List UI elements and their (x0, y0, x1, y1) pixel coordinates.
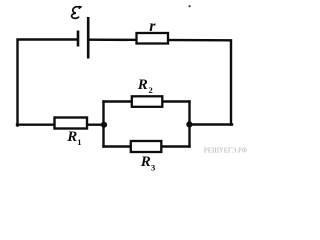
resistor r body (137, 33, 169, 44)
wire battery to resistor r to top-right corner and down (89, 40, 231, 125)
svg-text:3: 3 (151, 162, 155, 172)
resistor R2 body (132, 96, 163, 107)
label EMF script-E (72, 7, 81, 19)
battery E short plate (77, 31, 80, 47)
svg-text:1: 1 (77, 137, 81, 147)
svg-text:R: R (140, 154, 151, 170)
resistor R3 body (131, 141, 162, 152)
wire bottom-left run to left junction (17, 123, 104, 125)
svg-text:2: 2 (149, 85, 153, 95)
wire top-left from corner to battery (18, 40, 78, 126)
speck artifact top right (189, 5, 191, 7)
svg-text:РЕШУЕГЭ.РФ: РЕШУЕГЭ.РФ (204, 147, 248, 155)
junction node right (186, 121, 192, 127)
junction node left (101, 122, 107, 128)
battery E long plate (87, 17, 90, 59)
svg-text:R: R (137, 77, 148, 93)
wire top branch through R2 (104, 100, 190, 102)
wire right junction to right vertical (190, 123, 233, 125)
wire left parallel branch vertical (102, 102, 104, 147)
wire bottom branch through R3 (104, 145, 190, 147)
svg-text:R: R (66, 129, 77, 145)
wire right parallel branch vertical (188, 102, 190, 147)
resistor R1 body (55, 118, 88, 129)
svg-text:r: r (149, 18, 156, 35)
